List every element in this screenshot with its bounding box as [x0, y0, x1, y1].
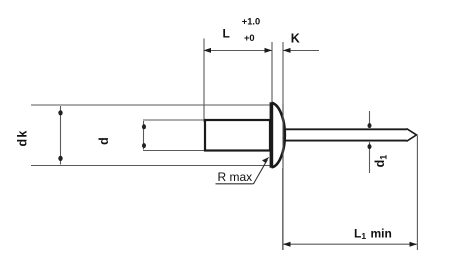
mandrel bottom line [284, 140, 407, 142]
mandrel tip [407, 129, 417, 142]
dimension d1 upper [369, 111, 371, 128]
svg-text:dk: dk [15, 129, 29, 146]
dimension K arrow and tail [284, 50, 320, 52]
svg-text:d: d [97, 137, 111, 145]
extension line d bottom [143, 150, 204, 152]
dimension dk line [60, 106, 62, 165]
extension line dk top [31, 104, 270, 106]
wire: K ext line crossing flange dome [282, 104, 284, 166]
dimension d line [143, 121, 145, 150]
svg-text:K: K [291, 31, 300, 45]
flange dome [272, 103, 285, 168]
rivet body [205, 120, 270, 151]
svg-text:R max: R max [218, 170, 253, 184]
extension line K right / L1 left [282, 42, 284, 250]
flange left face [270, 102, 274, 168]
extension line L left [203, 39, 205, 123]
extension line L1 right [416, 136, 418, 251]
dimension L1 line [283, 243, 417, 245]
svg-text:L: L [223, 27, 230, 41]
extension line d top [143, 119, 204, 121]
mandrel top line [284, 128, 407, 130]
dimension L line [205, 50, 272, 52]
dimension d1 lower [369, 142, 371, 173]
svg-text:+1.0: +1.0 [242, 17, 260, 27]
extension line dk bottom [31, 165, 270, 167]
svg-text:min: min [371, 226, 392, 240]
extension line L right / K left [271, 42, 273, 166]
svg-text:+0: +0 [244, 33, 255, 43]
extension line L1 left lower part [282, 168, 284, 250]
